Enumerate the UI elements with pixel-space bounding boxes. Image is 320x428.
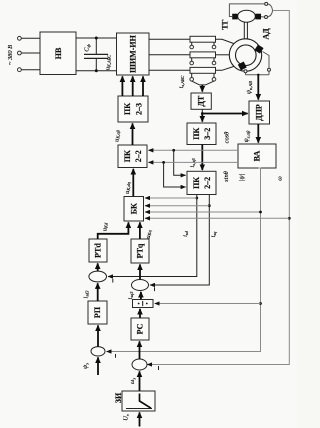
- block БК decoupling: [124, 197, 144, 222]
- wire supply phase A to НВ: [21, 37, 40, 39]
- summer q-axis: [132, 280, 149, 291]
- svg-text:РТd: РТd: [93, 243, 102, 258]
- wire flux signals to ДПР: [246, 75, 259, 100]
- wire supply phase B to НВ: [21, 52, 40, 54]
- wire РТd to БК: [98, 222, 129, 239]
- wire sinθ from ВА: [148, 161, 238, 182]
- wire РП to d summer: [82, 283, 97, 301]
- block ДПР flux observer: [249, 101, 270, 124]
- svg-text:ПК: ПК: [192, 177, 201, 189]
- block ДТ current sensor: [191, 93, 211, 109]
- svg-text:ψз: ψз: [82, 363, 89, 369]
- wire sinθ branch to current ПК2-2: [164, 162, 186, 187]
- wire flux modulus distribution: [107, 168, 262, 352]
- flux hall sensor top: [254, 45, 263, 54]
- svg-text:ПК: ПК: [123, 150, 132, 162]
- node supply terminal B: [18, 51, 22, 55]
- node АД label: [261, 28, 270, 40]
- node ~380V supply label: [7, 45, 14, 65]
- capacitor Сф: [84, 37, 109, 73]
- wire speed feedback ω: [147, 11, 290, 365]
- wire hall sensor bus: [246, 71, 270, 76]
- wire flux modulus to divider: [155, 303, 261, 305]
- wire ДТ to ПК3-2: [201, 114, 203, 122]
- wire ПК3-2 to ПК2-2 currents: [189, 145, 202, 170]
- svg-text:ДПР: ДПР: [254, 104, 263, 121]
- svg-text:isd: isd: [182, 230, 189, 236]
- block ШИМ-ИН inverter: [117, 33, 150, 75]
- summer d-axis: [89, 271, 107, 282]
- wire isd to БК: [145, 197, 197, 199]
- block НВ rectifier: [40, 32, 76, 75]
- svg-text:uК,dq: uК,dq: [124, 181, 132, 193]
- svg-text:ПК: ПК: [192, 127, 201, 139]
- wire speed reference Uз: [123, 412, 140, 426]
- node tacho terminal 2: [265, 16, 268, 19]
- wire cosθ from ВА: [148, 132, 238, 152]
- svg-text:АД: АД: [261, 28, 270, 40]
- svg-text:uКd: uКd: [102, 222, 109, 231]
- wire hall sensor right link: [263, 52, 270, 69]
- svg-text:РС: РС: [136, 323, 145, 334]
- wire inverter phase B: [149, 54, 190, 56]
- block divider: [133, 300, 154, 308]
- wire ω to БК: [145, 217, 289, 219]
- wire DC bus top rail: [76, 37, 117, 39]
- svg-text:2–2: 2–2: [203, 177, 212, 189]
- summer flux: [91, 347, 105, 356]
- shaft motor to tacho: [244, 22, 247, 39]
- node sensor tap right: [268, 68, 271, 71]
- block ВА vector analyzer: [238, 144, 276, 168]
- block РТq current regulator q: [131, 239, 149, 263]
- wire ПК2-3 to ШИМ-ИН phase arrows: [105, 55, 144, 96]
- wire flux modulus to БК: [145, 211, 261, 213]
- svg-text:|ψ|: |ψ|: [239, 174, 246, 182]
- svg-text:РП: РП: [93, 306, 102, 318]
- block РТd current regulator d: [89, 239, 107, 262]
- wire flux reference ψз: [82, 357, 98, 375]
- svg-text:ЗИ: ЗИ: [114, 392, 123, 403]
- wire isq feedback: [150, 195, 217, 286]
- svg-text:ВА: ВА: [253, 150, 262, 161]
- svg-text:ТГ: ТГ: [220, 19, 229, 29]
- wire inverter phase A: [149, 38, 190, 40]
- node supply terminal C: [18, 68, 22, 72]
- svg-text:НВ: НВ: [54, 47, 63, 59]
- svg-text:ПК: ПК: [123, 103, 132, 115]
- svg-text:Uз: Uз: [123, 414, 130, 421]
- svg-text:uКq: uКq: [145, 230, 152, 239]
- svg-text:isq: isq: [210, 231, 217, 237]
- svg-text:is,АВС: is,АВС: [178, 76, 186, 89]
- svg-text:sinθ: sinθ: [223, 171, 230, 182]
- wire DC bus bottom rail: [76, 70, 117, 72]
- wire phase B to motor: [216, 54, 230, 56]
- motor АД stator: [229, 39, 261, 71]
- wire tacho brush left to terminal: [229, 4, 264, 17]
- svg-text:uК,АВС: uК,АВС: [105, 55, 113, 70]
- wire divider to q summer: [127, 291, 141, 300]
- svg-text:ω: ω: [277, 176, 284, 181]
- svg-text:ψк,АВ: ψк,АВ: [246, 81, 254, 94]
- block ЗИ ramp generator: [114, 391, 155, 411]
- motor АД rotor: [236, 45, 257, 66]
- svg-text:ωз: ωз: [129, 378, 136, 385]
- node minus at d summer: [112, 279, 114, 283]
- block ПК2-3 converter: [118, 96, 148, 122]
- svg-text:~ 380 В: ~ 380 В: [7, 45, 14, 65]
- wire РС to divider: [139, 309, 141, 318]
- flux hall sensor bottom: [238, 62, 247, 71]
- block ПК3-2 coordinate converter: [187, 123, 216, 145]
- wire isd feedback: [108, 195, 198, 277]
- node minus at q summer: [154, 287, 156, 291]
- wire ПК2-2 to ПК2-3: [114, 123, 133, 145]
- svg-text:isd3: isd3: [82, 290, 89, 299]
- summer speed: [132, 359, 147, 370]
- wire d summer to РТd: [97, 263, 99, 271]
- svg-text:2–3: 2–3: [135, 103, 144, 115]
- wire ДТ output junction: [201, 109, 204, 115]
- block upper ПК2-2 voltage rotator: [118, 145, 147, 168]
- wire terminal bracket: [268, 4, 273, 17]
- wire flux summer to РП: [97, 325, 99, 346]
- wire БК to ПК2-2: [124, 169, 133, 197]
- node sensor tap left: [244, 70, 247, 73]
- shunt phase B: [190, 52, 216, 65]
- svg-text:РТq: РТq: [136, 243, 145, 258]
- wire speed summer to РС: [139, 341, 141, 359]
- svg-text:2–2: 2–2: [134, 150, 143, 162]
- block РП flux regulator: [88, 301, 107, 324]
- shunt phase C: [190, 67, 216, 81]
- wire phase A to motor: [216, 39, 235, 43]
- node minus at speed summer: [158, 366, 160, 370]
- block ПК2-2 current rotator: [187, 171, 216, 194]
- wire tacho brush right to terminal: [261, 16, 264, 18]
- svg-text:ψs,αβ: ψs,αβ: [243, 130, 251, 142]
- shunt phase A: [190, 36, 216, 49]
- svg-text:isq3: isq3: [127, 291, 134, 300]
- wire ЗИ to speed summer: [129, 371, 139, 391]
- wire currents to ДТ: [178, 76, 214, 92]
- svg-text:ШИМ-ИН: ШИМ-ИН: [129, 34, 138, 72]
- svg-text:ДТ: ДТ: [197, 95, 206, 107]
- wire ДПР to ВА: [243, 124, 258, 143]
- svg-text:3–2: 3–2: [203, 128, 212, 140]
- wire cosθ branch to current ПК2-2: [174, 150, 186, 175]
- node supply terminal A: [18, 36, 22, 40]
- svg-text:cosθ: cosθ: [224, 132, 231, 144]
- wire q summer to РТq: [139, 264, 141, 279]
- node tacho terminal 1: [265, 2, 268, 5]
- block РС speed regulator: [131, 318, 149, 340]
- wire supply phase C to НВ: [21, 69, 40, 71]
- wire РТq to БК: [140, 222, 152, 239]
- svg-text:uК,αβ: uК,αβ: [114, 129, 122, 142]
- wire isq to БК: [145, 205, 209, 207]
- node minus at flux summer: [115, 354, 117, 358]
- wire inverter phase C: [149, 69, 190, 71]
- wire ДТ to ДПР: [202, 113, 247, 115]
- wire phase C to motor: [216, 66, 235, 70]
- svg-text:Сф: Сф: [84, 44, 91, 52]
- svg-text:БК: БК: [130, 203, 139, 214]
- tachogenerator ТГ: [220, 10, 261, 30]
